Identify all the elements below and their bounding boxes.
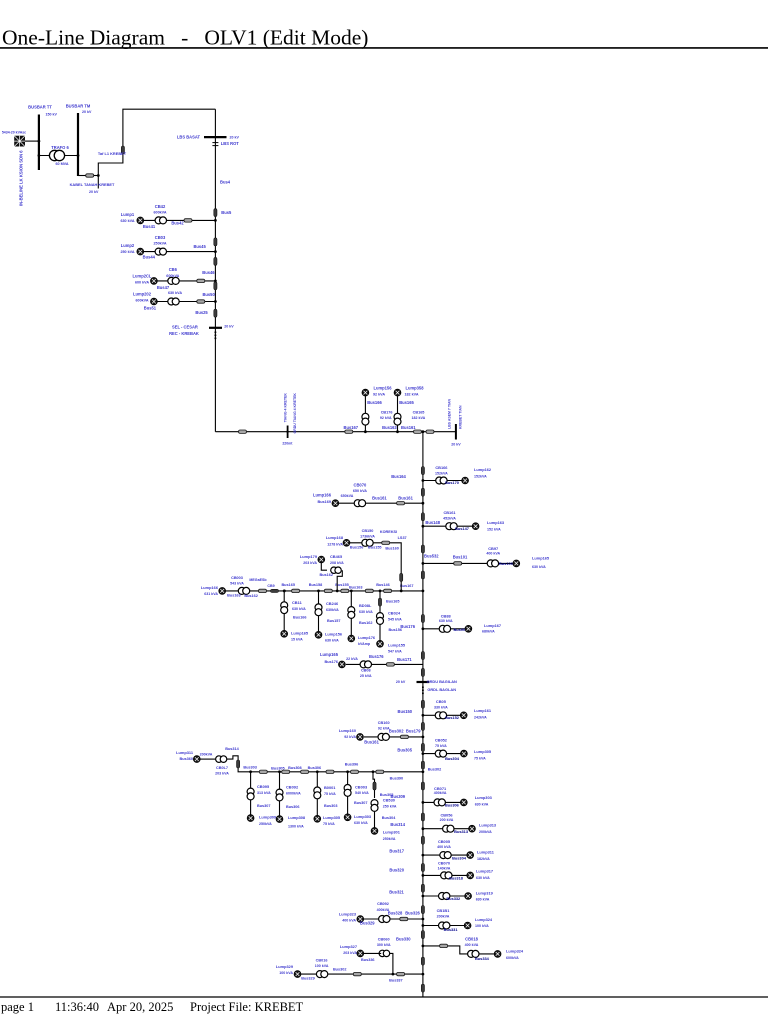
svg-text:600kVA: 600kVA	[506, 956, 519, 960]
svg-text:Bus314: Bus314	[225, 747, 239, 751]
svg-text:BUSBAR TT: BUSBAR TT	[28, 105, 52, 110]
svg-text:400 kVA: 400 kVA	[437, 845, 451, 849]
svg-text:200kVA: 200kVA	[200, 752, 213, 756]
svg-text:Bus304: Bus304	[452, 855, 467, 860]
svg-text:Bus360: Bus360	[179, 757, 193, 761]
svg-text:Bus161: Bus161	[398, 496, 413, 501]
svg-text:Lump166: Lump166	[313, 493, 332, 498]
svg-text:Bus170: Bus170	[445, 480, 459, 485]
svg-text:1736kVA: 1736kVA	[360, 534, 375, 538]
svg-text:Bus314: Bus314	[390, 822, 405, 827]
svg-text:CB024: CB024	[388, 611, 401, 616]
svg-text:Lump166: Lump166	[201, 585, 219, 590]
svg-text:GRDU BAGILAN: GRDU BAGILAN	[427, 679, 457, 684]
svg-text:GRDU TIANG 4 KRETEK: GRDU TIANG 4 KRETEK	[293, 393, 297, 434]
svg-text:100 kVA: 100 kVA	[475, 924, 489, 928]
svg-text:CB095: CB095	[257, 784, 270, 789]
svg-text:Bus51: Bus51	[144, 305, 157, 310]
svg-text:20 kV: 20 kV	[82, 110, 92, 114]
svg-text:Bus161: Bus161	[372, 496, 387, 501]
svg-text:Lump305: Lump305	[474, 749, 492, 754]
svg-text:Bus302: Bus302	[333, 968, 347, 972]
svg-text:Bus163: Bus163	[227, 593, 241, 597]
svg-text:182 kVA: 182 kVA	[404, 392, 418, 396]
svg-text:20 kV: 20 kV	[230, 136, 240, 140]
svg-text:600 kVA: 600 kVA	[135, 280, 149, 284]
svg-text:203 kVA: 203 kVA	[215, 771, 229, 775]
svg-text:Lump2: Lump2	[121, 243, 135, 248]
svg-text:540 kVA: 540 kVA	[355, 791, 369, 795]
svg-text:Bus307: Bus307	[257, 804, 271, 808]
svg-text:One-Line Diagram - OLV1 (E: One-Line Diagram - OLV1 (Edit Mode)	[2, 26, 368, 50]
svg-text:CB08: CB08	[361, 668, 371, 672]
svg-text:SEL - CESAR: SEL - CESAR	[172, 324, 198, 329]
svg-text:Bus155: Bus155	[368, 546, 382, 550]
svg-text:Bus45: Bus45	[193, 244, 206, 249]
svg-text:25 kVA: 25 kVA	[360, 674, 372, 678]
svg-text:Bus169: Bus169	[317, 500, 331, 504]
svg-text:Bus166: Bus166	[293, 616, 307, 620]
svg-text:20 kV: 20 kV	[89, 190, 99, 194]
svg-text:CB465: CB465	[330, 554, 343, 559]
svg-text:Bus162: Bus162	[244, 594, 258, 598]
svg-text:Bus304: Bus304	[445, 756, 460, 761]
svg-text:Lump163: Lump163	[487, 520, 505, 525]
svg-text:LS37: LS37	[398, 536, 407, 540]
svg-text:CB056: CB056	[440, 812, 453, 817]
svg-text:Bus157: Bus157	[327, 619, 341, 623]
svg-text:Lump1: Lump1	[121, 212, 135, 217]
svg-text:300 kVA: 300 kVA	[377, 943, 391, 947]
svg-text:250kVA: 250kVA	[383, 837, 396, 841]
svg-text:Bus5: Bus5	[221, 210, 232, 215]
svg-text:250kVA: 250kVA	[153, 242, 166, 246]
svg-text:100 kVA: 100 kVA	[315, 964, 329, 968]
svg-text:BUSBAR TM: BUSBAR TM	[66, 104, 91, 109]
svg-text:Lump308: Lump308	[288, 815, 306, 820]
svg-text:Bus41: Bus41	[143, 224, 156, 229]
svg-text:Bus47: Bus47	[157, 285, 170, 290]
svg-text:400 kVA: 400 kVA	[486, 552, 500, 556]
svg-text:75 kVA: 75 kVA	[474, 757, 486, 761]
svg-text:CB016: CB016	[316, 958, 328, 962]
svg-text:Bus152: Bus152	[445, 715, 460, 720]
svg-text:CB03: CB03	[155, 235, 166, 240]
svg-text:CB97: CB97	[488, 546, 498, 551]
svg-text:Bus326: Bus326	[405, 911, 420, 916]
svg-text:200kVA: 200kVA	[479, 830, 492, 834]
svg-text:page 1: page 1	[1, 1000, 34, 1014]
svg-text:152 kVA: 152 kVA	[487, 528, 501, 532]
svg-text:630 kVA: 630 kVA	[532, 565, 546, 569]
svg-text:IN-BELINE LK KSION SDN 6: IN-BELINE LK KSION SDN 6	[19, 150, 24, 206]
svg-text:Lump301: Lump301	[383, 829, 401, 834]
svg-text:Bus42: Bus42	[171, 220, 184, 225]
svg-text:Bus304: Bus304	[382, 816, 396, 820]
svg-text:Bus165: Bus165	[399, 400, 414, 405]
svg-text:Bus90: Bus90	[453, 627, 465, 632]
svg-text:KABEL TANAH KREBET: KABEL TANAH KREBET	[70, 182, 115, 187]
svg-text:630kVA: 630kVA	[326, 608, 339, 612]
svg-text:Bus303: Bus303	[243, 765, 257, 769]
svg-text:140kVA: 140kVA	[438, 866, 451, 870]
svg-text:Bus329: Bus329	[301, 977, 315, 981]
svg-text:20 kV: 20 kV	[396, 680, 406, 684]
svg-text:600kVA: 600kVA	[153, 211, 166, 215]
svg-text:Bus162: Bus162	[319, 573, 333, 577]
svg-text:REC - KREBAK: REC - KREBAK	[169, 331, 199, 336]
svg-text:Project File: KREBET: Project File: KREBET	[190, 1000, 304, 1014]
svg-text:250kVA: 250kVA	[259, 822, 272, 826]
svg-text:CB6: CB6	[169, 267, 178, 272]
svg-text:Bus101: Bus101	[453, 555, 468, 560]
svg-text:kVAmp: kVAmp	[358, 642, 371, 646]
svg-text:CB160: CB160	[378, 721, 390, 725]
svg-text:CB052: CB052	[435, 738, 448, 743]
svg-text:Bus330: Bus330	[396, 936, 411, 941]
svg-text:MEGaESb: MEGaESb	[249, 578, 267, 582]
svg-text:CB165: CB165	[413, 410, 425, 414]
svg-text:CB092: CB092	[377, 902, 389, 906]
svg-text:630 kVA: 630 kVA	[476, 897, 490, 901]
svg-text:Bus307: Bus307	[354, 801, 368, 805]
svg-text:100 kVA: 100 kVA	[279, 971, 293, 975]
svg-text:Bus100: Bus100	[499, 561, 513, 566]
svg-text:CB005: CB005	[438, 839, 451, 844]
svg-text:CB9: CB9	[267, 584, 274, 588]
svg-text:Bus44: Bus44	[143, 254, 156, 259]
svg-text:547 kVA: 547 kVA	[388, 649, 402, 653]
svg-text:Bus390: Bus390	[390, 777, 404, 781]
svg-text:Bus156: Bus156	[389, 628, 403, 632]
svg-text:Lump156: Lump156	[374, 385, 393, 390]
svg-text:CB166: CB166	[435, 465, 448, 470]
svg-text:Bus331: Bus331	[444, 927, 459, 932]
svg-text:Lump168: Lump168	[326, 535, 344, 540]
svg-text:Lump313: Lump313	[479, 823, 497, 828]
svg-text:Bus148: Bus148	[425, 520, 440, 525]
svg-text:Bus329: Bus329	[360, 921, 375, 926]
svg-text:Bus328: Bus328	[388, 911, 403, 916]
svg-text:650 kVA: 650 kVA	[353, 489, 367, 493]
svg-text:250 kVA: 250 kVA	[120, 250, 134, 254]
svg-text:630 kVA: 630 kVA	[475, 803, 489, 807]
svg-text:Bus302: Bus302	[428, 767, 442, 771]
svg-text:75 kVA: 75 kVA	[435, 744, 447, 748]
svg-text:Bus318: Bus318	[449, 875, 464, 880]
svg-text:TIANG 4 KRETEK: TIANG 4 KRETEK	[284, 393, 288, 423]
svg-text:Lump358: Lump358	[406, 385, 425, 390]
svg-text:CB11: CB11	[292, 600, 303, 605]
svg-text:CB1B1: CB1B1	[437, 908, 451, 913]
svg-text:5434-20 kVAsc: 5434-20 kVAsc	[2, 131, 26, 135]
svg-text:Bus308: Bus308	[288, 766, 302, 770]
svg-text:CB018: CB018	[465, 936, 478, 941]
svg-text:Bus334: Bus334	[475, 956, 490, 961]
svg-text:Lump202: Lump202	[133, 291, 152, 296]
svg-text:Bus158: Bus158	[309, 583, 323, 587]
svg-text:200kVA: 200kVA	[437, 915, 450, 919]
svg-text:CB070: CB070	[438, 860, 450, 865]
svg-text:Bus336: Bus336	[361, 958, 375, 962]
svg-text:Bus332: Bus332	[446, 896, 461, 901]
svg-text:Bus321: Bus321	[389, 889, 404, 894]
svg-text:CB092: CB092	[286, 784, 299, 789]
svg-text:92 kVA: 92 kVA	[373, 392, 385, 396]
svg-text:75 kVA: 75 kVA	[323, 822, 335, 826]
svg-text:Bus171: Bus171	[397, 657, 412, 662]
svg-text:Lump156: Lump156	[325, 631, 343, 636]
svg-text:CB176: CB176	[381, 410, 393, 414]
svg-text:Bus306: Bus306	[308, 766, 322, 770]
svg-text:Lump324: Lump324	[475, 917, 493, 922]
svg-text:Lump317: Lump317	[476, 869, 493, 874]
svg-text:22 kVA: 22 kVA	[346, 657, 358, 661]
svg-text:11:36:40: 11:36:40	[55, 1000, 99, 1014]
svg-text:Lump305: Lump305	[323, 815, 341, 820]
svg-text:Bus176: Bus176	[324, 660, 338, 664]
svg-text:182 kVA: 182 kVA	[412, 416, 426, 420]
svg-text:630 kVA: 630 kVA	[168, 291, 182, 295]
svg-text:Lump179: Lump179	[300, 554, 318, 559]
svg-text:630 kVA: 630 kVA	[120, 219, 134, 223]
svg-text:KOREKSI: KOREKSI	[380, 530, 397, 534]
svg-text:CB530: CB530	[383, 797, 395, 802]
svg-text:Lump311: Lump311	[477, 849, 495, 854]
svg-text:Bus313: Bus313	[454, 829, 469, 834]
svg-text:Bus305: Bus305	[397, 747, 412, 752]
svg-text:182kVA: 182kVA	[477, 857, 490, 861]
svg-text:Bus167: Bus167	[400, 584, 414, 588]
svg-text:20 kV: 20 kV	[224, 324, 234, 328]
svg-text:Lump176: Lump176	[358, 635, 376, 640]
svg-text:Bus147: Bus147	[455, 526, 469, 531]
svg-text:BD08L: BD08L	[359, 603, 372, 608]
svg-text:Lump323: Lump323	[339, 911, 357, 916]
svg-text:Bus150: Bus150	[398, 709, 413, 714]
svg-text:Bus163: Bus163	[349, 586, 363, 590]
svg-text:220mt: 220mt	[282, 441, 293, 445]
svg-text:Bus396: Bus396	[345, 763, 359, 767]
svg-text:Apr 20, 2025: Apr 20, 2025	[107, 1000, 173, 1014]
svg-text:Taf L1 KREBET: Taf L1 KREBET	[98, 151, 127, 156]
svg-text:Lump309: Lump309	[259, 815, 277, 820]
svg-text:203 kVA: 203 kVA	[343, 951, 357, 955]
svg-text:152kVA: 152kVA	[435, 472, 448, 476]
svg-text:Lump167: Lump167	[484, 623, 501, 628]
svg-text:Lump329: Lump329	[276, 964, 294, 969]
svg-text:Bus167: Bus167	[344, 425, 359, 430]
svg-text:313 kVA: 313 kVA	[257, 791, 271, 795]
svg-text:Bus156: Bus156	[350, 546, 364, 550]
svg-text:TRAFO 6: TRAFO 6	[51, 145, 69, 150]
svg-text:Lump324: Lump324	[506, 949, 524, 954]
svg-text:CB0L7: CB0L7	[216, 766, 228, 770]
svg-text:Bus302: Bus302	[389, 728, 404, 733]
svg-text:CB070: CB070	[354, 482, 367, 487]
svg-text:208 kVA: 208 kVA	[330, 561, 344, 565]
svg-text:400kVA: 400kVA	[434, 791, 447, 795]
svg-text:Bus176: Bus176	[369, 654, 384, 659]
svg-text:B0001: B0001	[324, 785, 336, 790]
svg-text:Lump2CL: Lump2CL	[133, 273, 152, 278]
svg-text:150 kV: 150 kV	[46, 113, 58, 117]
svg-text:Lump161: Lump161	[474, 708, 492, 713]
svg-text:242kVA: 242kVA	[474, 715, 487, 719]
svg-text:LBS ROT: LBS ROT	[221, 141, 239, 146]
svg-text:630 kVA: 630 kVA	[325, 638, 339, 642]
svg-text:600kVA: 600kVA	[135, 298, 148, 302]
svg-text:Bus4: Bus4	[220, 180, 231, 185]
svg-text:20 kV: 20 kV	[451, 443, 461, 447]
svg-text:GRDL BAGLAN: GRDL BAGLAN	[427, 687, 456, 692]
svg-text:Bus25: Bus25	[195, 310, 208, 315]
svg-text:1300 kVA: 1300 kVA	[288, 824, 304, 828]
svg-text:452kVA: 452kVA	[443, 517, 456, 521]
svg-text:600kVA: 600kVA	[166, 274, 179, 278]
svg-text:Lump160: Lump160	[339, 728, 356, 733]
svg-text:Bus303: Bus303	[324, 804, 338, 808]
svg-text:Lump165: Lump165	[532, 556, 550, 561]
svg-text:Lump327: Lump327	[340, 944, 357, 949]
svg-text:60 MVA: 60 MVA	[55, 162, 68, 166]
svg-text:630 kVA: 630 kVA	[476, 876, 490, 880]
svg-text:630 kVA: 630 kVA	[359, 610, 373, 614]
svg-text:400 kVA: 400 kVA	[342, 918, 356, 922]
svg-text:Bus176: Bus176	[400, 624, 415, 629]
svg-text:Bus50: Bus50	[202, 292, 215, 297]
svg-text:15 kVA: 15 kVA	[291, 637, 303, 641]
svg-text:152kVA: 152kVA	[474, 474, 487, 478]
svg-text:Bus161: Bus161	[364, 740, 379, 745]
svg-text:Bus179: Bus179	[406, 728, 421, 733]
svg-text:Bus163: Bus163	[382, 425, 397, 430]
svg-text:203 kVA: 203 kVA	[303, 561, 317, 565]
svg-text:Lump311: Lump311	[176, 750, 194, 755]
svg-text:Bus165: Bus165	[386, 600, 400, 604]
svg-text:CB161: CB161	[443, 510, 456, 515]
svg-text:631 kVA: 631 kVA	[204, 592, 218, 596]
svg-text:Bus320: Bus320	[389, 868, 404, 873]
svg-text:680kVA: 680kVA	[482, 630, 495, 634]
svg-text:92 kVA: 92 kVA	[344, 735, 356, 739]
svg-text:Bus305: Bus305	[380, 793, 394, 797]
svg-text:Lump319: Lump319	[476, 890, 494, 895]
svg-text:CB003: CB003	[231, 576, 243, 580]
svg-text:CB150: CB150	[362, 529, 374, 533]
svg-text:LBS BASAT: LBS BASAT	[177, 135, 201, 140]
svg-text:75 kVA: 75 kVA	[324, 792, 336, 796]
svg-text:LBS ASEM 7 TIAN: LBS ASEM 7 TIAN	[448, 399, 452, 429]
svg-text:CB05: CB05	[436, 699, 447, 704]
svg-text:Bus162: Bus162	[359, 621, 373, 625]
svg-text:Bus306: Bus306	[286, 805, 300, 809]
svg-text:Bus337: Bus337	[389, 979, 403, 983]
svg-text:Bus46: Bus46	[202, 270, 215, 275]
svg-text:Lump155: Lump155	[388, 642, 406, 647]
svg-text:Lump165: Lump165	[320, 652, 339, 657]
svg-text:Bus166: Bus166	[367, 400, 382, 405]
svg-text:Bus532: Bus532	[424, 554, 439, 559]
svg-text:Bus306: Bus306	[445, 802, 460, 807]
svg-text:330 kVA: 330 kVA	[434, 706, 448, 710]
svg-text:250 kVA: 250 kVA	[383, 804, 397, 808]
svg-text:630 kVA: 630 kVA	[439, 619, 453, 623]
svg-text:400 kVA: 400 kVA	[465, 943, 479, 947]
svg-text:Bus305: Bus305	[271, 766, 285, 770]
svg-text:Lump165: Lump165	[291, 630, 309, 635]
svg-text:CB42: CB42	[155, 204, 166, 209]
svg-text:630 kVA: 630 kVA	[354, 821, 368, 825]
svg-text:650kVA: 650kVA	[341, 494, 354, 498]
svg-text:630 kVA: 630 kVA	[292, 607, 306, 611]
svg-text:Bus161: Bus161	[401, 425, 416, 430]
svg-text:545 kVA: 545 kVA	[388, 618, 402, 622]
svg-text:Bus160: Bus160	[385, 547, 399, 551]
svg-text:Lump303: Lump303	[475, 795, 493, 800]
svg-text:Lump162: Lump162	[474, 467, 492, 472]
svg-text:1278 kVA: 1278 kVA	[327, 543, 343, 547]
svg-text:Bus165: Bus165	[281, 583, 295, 587]
svg-text:200 kVA: 200 kVA	[440, 818, 454, 822]
svg-text:6000kVA: 6000kVA	[286, 791, 301, 795]
svg-text:Bus146: Bus146	[376, 583, 390, 587]
svg-text:CB003: CB003	[355, 784, 368, 789]
svg-text:CB060: CB060	[378, 937, 390, 941]
svg-text:Bus164: Bus164	[391, 474, 406, 479]
svg-text:Lump303: Lump303	[354, 814, 372, 819]
svg-text:543 kVA: 543 kVA	[230, 581, 244, 585]
svg-text:KREBET TIAN: KREBET TIAN	[459, 405, 463, 429]
svg-text:CB246: CB246	[326, 601, 339, 606]
svg-text:Bus317: Bus317	[389, 848, 404, 853]
svg-text:92 kVA: 92 kVA	[380, 416, 392, 420]
